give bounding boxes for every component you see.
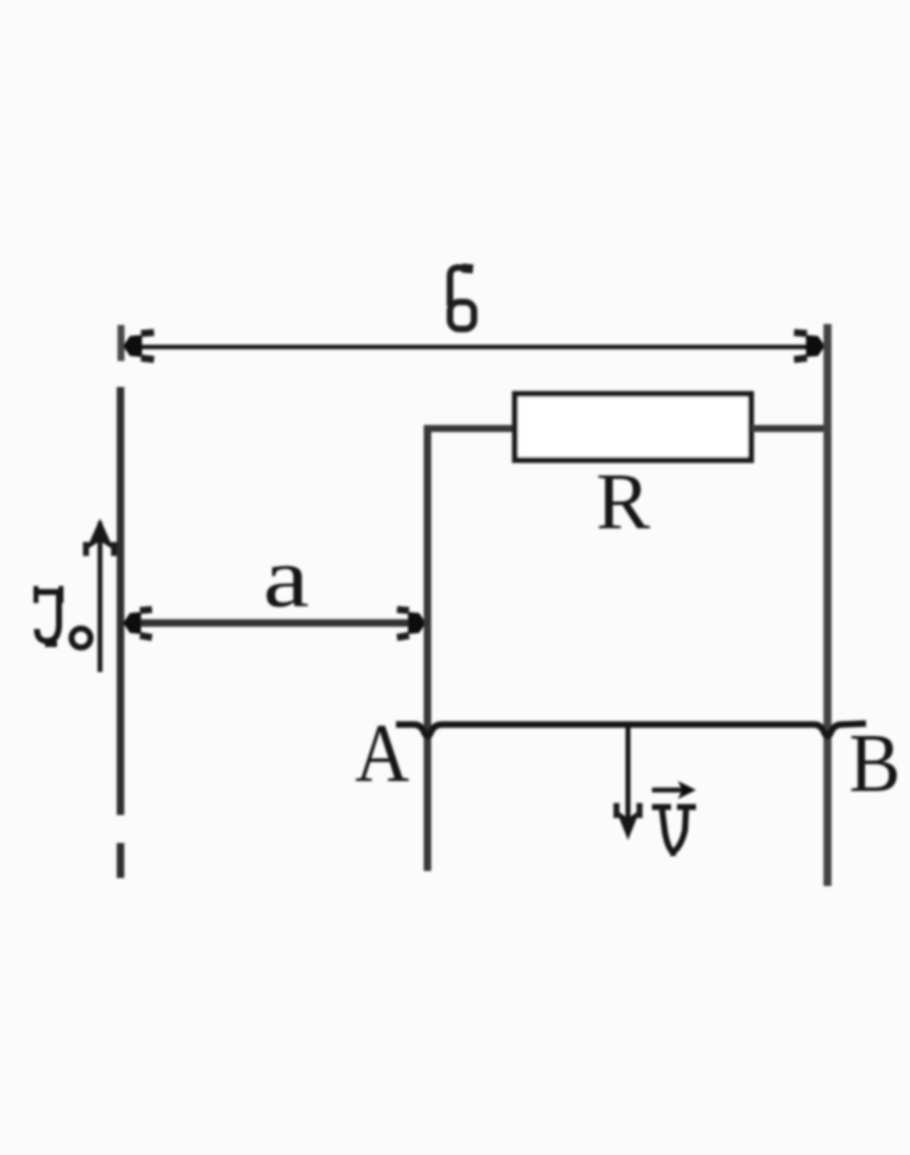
- vector arrow over v: [652, 788, 684, 793]
- left tick of dimension b: [118, 325, 125, 361]
- svg-text:R: R: [596, 456, 650, 546]
- current direction arrow for I0: [98, 522, 103, 672]
- label I0 : J glyph: [36, 586, 62, 644]
- resistor R body: [515, 394, 751, 460]
- label R: [596, 456, 650, 546]
- svg-text:B: B: [849, 717, 901, 810]
- dimension line b (top width dimension): [124, 345, 823, 350]
- label I0 : subscript o: [72, 629, 91, 648]
- sliding rod AB: [396, 724, 866, 737]
- node A label: [355, 707, 409, 800]
- node B label: [849, 717, 901, 810]
- top wire right segment: [751, 425, 830, 432]
- left arrowhead of dimension a: [123, 612, 141, 634]
- dashed continuation of long wire: [117, 843, 125, 878]
- top wire left segment: [424, 425, 517, 432]
- velocity arrow v: [626, 727, 631, 824]
- long straight wire carrying current I0: [117, 387, 125, 815]
- right arrowhead of dimension a: [408, 612, 426, 634]
- label v glyph: [652, 807, 696, 856]
- label b (Cyrillic be): [450, 268, 474, 330]
- left arrowhead of dimension b: [123, 335, 142, 357]
- circuit frame left rail: [424, 425, 432, 871]
- label a: [263, 530, 309, 625]
- right arrowhead of dimension b: [806, 335, 825, 357]
- svg-text:A: A: [355, 707, 409, 800]
- svg-text:a: a: [263, 530, 309, 625]
- dimension arrow a (wire to frame): [126, 619, 422, 627]
- circuit frame right rail: [824, 324, 832, 886]
